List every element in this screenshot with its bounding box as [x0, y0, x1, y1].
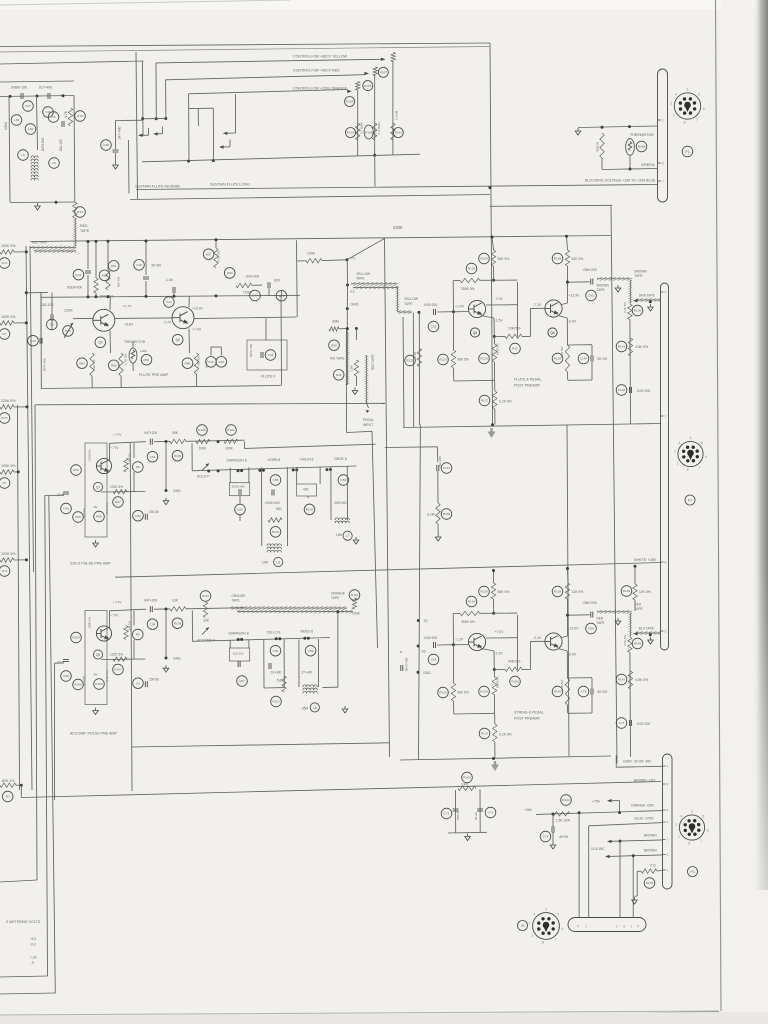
- junction: [346, 327, 349, 330]
- wire ar2: [317, 639, 319, 648]
- inductor L6 coil: [267, 544, 281, 553]
- svg-text:C52: C52: [135, 514, 141, 518]
- capacitor C47: [250, 290, 261, 301]
- svg-text:8: 8: [667, 782, 669, 786]
- wire r80 stub: [95, 241, 97, 278]
- svg-text:4: 4: [675, 93, 677, 97]
- wire emitter v: [493, 318, 495, 337]
- resistor R121 zig: [417, 348, 421, 366]
- wire r6 bot: [567, 372, 569, 380]
- wire base down2: [453, 368, 455, 381]
- capacitor C144 symbol: [591, 356, 593, 362]
- junction: [107, 240, 110, 243]
- capacitor C38: [101, 140, 112, 151]
- wire pot-base: [73, 317, 93, 319]
- resistor R145: [644, 878, 655, 889]
- junction: [578, 811, 581, 814]
- wire r91 col bot: [355, 376, 357, 386]
- capacitor C96b symbol: [269, 663, 271, 669]
- svg-text:R168: R168: [638, 145, 646, 149]
- junction: [566, 281, 569, 284]
- svg-text:C48: C48: [136, 263, 142, 267]
- capacitor C6: [49, 158, 60, 169]
- capacitor C8: [48, 112, 59, 123]
- wire r139 top: [634, 566, 636, 584]
- svg-text:.047+400: .047+400: [118, 126, 122, 140]
- resistor R7 symbol: [0, 321, 14, 325]
- border top line A: [0, 43, 490, 47]
- svg-text:GND.: GND.: [173, 657, 182, 661]
- wire c2 bot: [591, 695, 593, 714]
- svg-text:F11: F11: [651, 864, 657, 868]
- svg-text:TAPE: TAPE: [331, 596, 339, 600]
- wire v2: [319, 467, 321, 484]
- bus 2200 line: [30, 236, 611, 242]
- thermistor: [626, 139, 635, 156]
- node S3: [417, 645, 420, 648]
- wire q5-q6 link: [115, 317, 173, 320]
- resistor R74 symbol: [0, 558, 14, 562]
- resistor 100K symbol: [306, 259, 322, 263]
- wire rg hang: [133, 611, 135, 626]
- svg-text:P2: P2: [685, 150, 689, 154]
- svg-text:8: 8: [542, 941, 544, 945]
- svg-text:.015-200: .015-200: [232, 652, 244, 656]
- resistor R110: [200, 591, 211, 602]
- diapason cap box: [229, 483, 249, 496]
- wire c48 stub: [145, 241, 147, 275]
- junction: [95, 240, 98, 243]
- wire c147 vert: [437, 447, 439, 462]
- mid vertical x567: [567, 425, 569, 757]
- svg-text:6.8K 5%: 6.8K 5%: [636, 678, 649, 682]
- resistor R167 symbol: [391, 53, 395, 62]
- svg-text:1: 1: [678, 835, 680, 839]
- svg-text:+36V: +36V: [524, 808, 533, 812]
- bus node: [258, 469, 261, 472]
- wire r86 bottom: [196, 374, 198, 387]
- svg-text:+7.7V: +7.7V: [123, 305, 133, 309]
- wire red feed horiz: [166, 75, 365, 80]
- svg-text:+.77V: +.77V: [113, 433, 122, 437]
- wire r81 stub: [107, 241, 109, 270]
- ground: [648, 304, 654, 311]
- wire c74 v2: [552, 832, 554, 842]
- node gnd: [346, 307, 349, 310]
- svg-text:56A 5%: 56A 5%: [117, 276, 121, 287]
- emitter2 bottom wire: [568, 379, 592, 381]
- resistor R90: [329, 340, 340, 351]
- svg-text:L7: L7: [346, 534, 350, 538]
- resistor R34: [75, 207, 86, 218]
- resistor R130: [632, 305, 643, 316]
- wire c2 top: [591, 345, 593, 356]
- svg-text:S2: S2: [424, 619, 428, 623]
- pin tick: [663, 869, 666, 871]
- divider vertical x611: [611, 206, 617, 764]
- wire base: [454, 311, 469, 313]
- junction: [566, 567, 569, 570]
- ground: [352, 388, 358, 395]
- wire: [14, 251, 27, 253]
- svg-text:.043+200: .043+200: [636, 389, 650, 393]
- resistor R74: [0, 566, 10, 577]
- resistor R124: [479, 253, 490, 264]
- capacitor C47 symbol: [268, 282, 270, 288]
- svg-text:2.2K 5%: 2.2K 5%: [499, 400, 512, 404]
- svg-text:R112: R112: [272, 700, 279, 704]
- capacitor C62: [428, 321, 439, 332]
- svg-text:SOLO PULSE PRE AMP: SOLO PULSE PRE AMP: [70, 562, 111, 566]
- svg-text:5: 5: [701, 441, 703, 445]
- svg-text:ORANGE: ORANGE: [331, 592, 345, 596]
- wire rail step: [243, 441, 245, 448]
- bus node: [295, 468, 298, 471]
- junction base: [452, 643, 455, 646]
- node: [212, 159, 215, 162]
- wire r139 bot: [634, 600, 636, 611]
- capacitor C42 symbol: [85, 271, 91, 273]
- svg-text:30-6: 30-6: [57, 661, 64, 665]
- emitter2 bottom wire: [568, 712, 592, 714]
- capacitor C42: [73, 269, 84, 280]
- svg-text:.0068/-100: .0068/-100: [10, 86, 27, 90]
- wire cello right v: [283, 648, 285, 688]
- svg-text:2200: 2200: [393, 225, 403, 230]
- wire reed left v: [298, 648, 300, 687]
- flute F box: [247, 340, 287, 370]
- node F1: [346, 258, 349, 261]
- wire horn left v: [261, 476, 263, 546]
- svg-text:C6: C6: [52, 161, 56, 165]
- resistor R93: [333, 370, 344, 381]
- transistor Q6 label: [172, 334, 183, 345]
- svg-text:3: 3: [687, 88, 689, 92]
- resistor R75: [75, 111, 86, 122]
- junction: [145, 240, 148, 243]
- inductor L36: [11, 115, 22, 126]
- svg-text:6800 5%: 6800 5%: [496, 676, 500, 688]
- wire 2nd base v: [529, 308, 531, 336]
- svg-text:50+25: 50+25: [598, 690, 608, 694]
- junction: [26, 405, 29, 408]
- wire d4: [239, 515, 241, 521]
- wire emitter: [481, 316, 494, 319]
- svg-text:BROWN: BROWN: [635, 270, 648, 274]
- resistor R97 symbol: [113, 490, 127, 494]
- svg-text:TAPE: TAPE: [635, 607, 643, 611]
- svg-text:52K 5%: 52K 5%: [572, 257, 584, 261]
- svg-text:R121: R121: [406, 359, 414, 363]
- pin tick: [661, 291, 664, 293]
- notes box outer bottom: [0, 993, 56, 994]
- junction: [629, 168, 632, 171]
- resistor R111: [349, 590, 360, 601]
- capacitor C89 symbol: [591, 612, 593, 618]
- svg-text:R90: R90: [227, 271, 233, 275]
- svg-text:YELLOW: YELLOW: [404, 297, 419, 301]
- ground: [648, 637, 654, 644]
- svg-text:Q4: Q4: [550, 331, 554, 335]
- inductor L5: [18, 150, 29, 161]
- wire c42 stub2: [87, 275, 89, 297]
- capacitor C66: [428, 654, 439, 665]
- capacitor C48 symbol: [261, 352, 263, 358]
- pulse sections left edge: [130, 443, 132, 791]
- capacitor C78: [578, 686, 589, 697]
- bus node: [326, 468, 329, 471]
- resistor R142: [616, 674, 627, 685]
- transistor Q8 box: [85, 611, 107, 705]
- svg-text:R71: R71: [2, 261, 8, 265]
- wire 22m: [252, 284, 262, 286]
- ground: [465, 834, 471, 841]
- svg-text:-6.9V: -6.9V: [568, 653, 577, 657]
- svg-text:R107: R107: [114, 668, 122, 672]
- junction emitter: [493, 668, 496, 671]
- svg-text:+12.9V: +12.9V: [569, 294, 581, 298]
- svg-text:STRING & PEDAL: STRING & PEDAL: [514, 711, 544, 715]
- resistor R101 symbol: [224, 439, 238, 443]
- junction: [619, 840, 622, 843]
- svg-text:1000 5%: 1000 5%: [88, 617, 92, 629]
- wire brown a: [611, 840, 663, 841]
- svg-text:2.2K: 2.2K: [413, 352, 417, 358]
- wire c45 stub: [210, 347, 212, 356]
- svg-text:8: 8: [688, 842, 690, 846]
- svg-text:R7: R7: [3, 481, 7, 485]
- resistor R80: [99, 270, 110, 281]
- wire r91 col top: [355, 329, 357, 341]
- svg-text:220K 5%: 220K 5%: [1, 552, 16, 556]
- svg-text:RED: RED: [80, 224, 88, 228]
- svg-text:ORANGE: ORANGE: [232, 594, 246, 598]
- bus node: [275, 637, 278, 640]
- wire sustain B arm2: [226, 132, 235, 134]
- BROWN tape run: [597, 277, 632, 281]
- node: [418, 311, 421, 314]
- box1 left wire: [9, 96, 10, 202]
- svg-text:10K: 10K: [203, 619, 210, 623]
- svg-text:4: 4: [665, 290, 667, 294]
- orange tape run 2: [237, 610, 353, 614]
- resistor R123 symbol: [460, 278, 480, 282]
- wire right vert: [629, 653, 632, 758]
- wire q2 emitter v: [566, 318, 568, 345]
- resistor R150 symbol: [436, 503, 440, 524]
- resistor R127 symbol: [493, 391, 497, 409]
- resistor R124 symbol: [491, 250, 495, 266]
- svg-text:R93: R93: [336, 373, 342, 377]
- capacitor C45: [206, 357, 217, 368]
- capacitor C89: [586, 623, 597, 634]
- box1 top line: [0, 61, 144, 64]
- capacitor C87: [237, 676, 248, 687]
- wire sustain B arm1 v: [229, 140, 231, 147]
- inductor L7 label: [343, 531, 352, 540]
- capacitor C37: [23, 101, 34, 112]
- svg-text:R135: R135: [480, 590, 488, 594]
- junction: [566, 614, 569, 617]
- svg-text:.0022+400: .0022+400: [249, 343, 253, 358]
- svg-text:POST PREAMP.: POST PREAMP.: [514, 384, 540, 388]
- plug label P3: [688, 867, 698, 877]
- svg-text:RED: RED: [635, 603, 642, 607]
- wire r127 to base: [522, 336, 530, 338]
- svg-text:C62: C62: [431, 325, 437, 329]
- svg-text:5: 5: [702, 814, 704, 818]
- svg-text:C89: C89: [588, 627, 594, 631]
- resistor R106: [94, 679, 105, 690]
- arrowhead red: [364, 72, 369, 75]
- resistor R83 symbol: [119, 353, 123, 376]
- svg-text:C72: C72: [444, 812, 450, 816]
- svg-text:4.7K: 4.7K: [64, 110, 68, 118]
- wire after cap: [154, 440, 170, 442]
- wire c2 join: [567, 677, 592, 679]
- svg-text:R162: R162: [365, 130, 373, 134]
- pin tick: [663, 854, 666, 856]
- svg-text:4: 4: [678, 441, 680, 445]
- svg-text:C73: C73: [488, 811, 494, 815]
- capacitor C62 symbol: [434, 309, 436, 315]
- svg-text:.043+200: .043+200: [423, 303, 437, 307]
- resistor R94: [71, 465, 82, 476]
- svg-text:TAPE: TAPE: [356, 277, 365, 281]
- inductor L8 coil: [303, 685, 317, 694]
- inductor L7 coil: [335, 518, 349, 523]
- svg-text:.00334-600: .00334-600: [66, 286, 82, 290]
- wire blue: [589, 823, 663, 826]
- bus node: [307, 637, 310, 640]
- svg-text:C37: C37: [25, 104, 31, 108]
- resistor 4.7K: [68, 108, 72, 126]
- junction: [632, 854, 635, 857]
- resistor R138 symbol: [565, 583, 569, 599]
- wire base down2: [453, 701, 455, 714]
- resistor R87 symbol: [214, 248, 218, 268]
- capacitor C5: [133, 678, 144, 689]
- junction: [25, 558, 28, 561]
- wire d1: [229, 468, 231, 483]
- svg-text:+75V: +75V: [592, 800, 601, 804]
- wire o1: [330, 467, 332, 476]
- wire sustain B arm1: [223, 146, 231, 148]
- capacitor C49: [61, 503, 72, 514]
- capacitor C46: [216, 357, 227, 368]
- wire brown b down: [632, 856, 634, 918]
- capacitor .0047-600 symbol: [401, 665, 403, 671]
- svg-text:1000: 1000: [461, 783, 468, 787]
- notes box inner right edge: [45, 495, 48, 976]
- wire sustain A arm2 v: [162, 127, 164, 134]
- wire orange feed vert: [188, 94, 190, 161]
- bus node: [237, 469, 240, 472]
- svg-text:C96: C96: [273, 649, 279, 653]
- svg-text:33M: 33M: [332, 320, 339, 324]
- capacitor C37 symbol: [21, 93, 23, 99]
- resistor R126 symbol: [565, 345, 569, 372]
- svg-text:1: 1: [673, 114, 675, 118]
- capacitor C148 symbol: [630, 387, 632, 393]
- wire q2 emitter: [558, 316, 567, 319]
- svg-text:56K 5%: 56K 5%: [498, 590, 510, 594]
- bus node: [303, 637, 306, 640]
- bottom page edge line 2: [115, 1012, 719, 1024]
- junction: [87, 240, 90, 243]
- resistor R164: [346, 128, 356, 138]
- wire sustain B h1: [189, 107, 213, 109]
- svg-text:.0033+400: .0033+400: [231, 485, 245, 489]
- svg-text:R106: R106: [95, 682, 103, 686]
- svg-text:REED 8: REED 8: [301, 630, 313, 634]
- svg-text:3: 3: [667, 853, 669, 857]
- svg-text:122K 5%: 122K 5%: [110, 485, 123, 489]
- svg-text:5.6A 5%: 5.6A 5%: [217, 250, 221, 262]
- capacitor C44: [164, 297, 175, 308]
- resistor R134 symbol: [460, 611, 480, 615]
- wire c44 stub: [173, 293, 175, 296]
- svg-text:.27+400: .27+400: [301, 671, 313, 675]
- capacitor C73: [485, 807, 496, 818]
- capacitor C51 symbol: [150, 439, 152, 445]
- red tape vertical run: [73, 218, 77, 246]
- svg-text:100K: 100K: [225, 446, 234, 450]
- control down feed: [374, 155, 376, 186]
- wire gnd-tape: [346, 309, 348, 333]
- svg-text:BROWN -3.8V: BROWN -3.8V: [634, 779, 656, 783]
- pin tick: [658, 119, 662, 121]
- svg-text:-1.5V: -1.5V: [495, 319, 504, 323]
- junction: [492, 757, 495, 760]
- capacitor C96: [270, 645, 281, 656]
- wire c4 down: [51, 320, 53, 330]
- svg-text:2.2K 5%: 2.2K 5%: [623, 635, 627, 646]
- switch SOLO F: [202, 464, 209, 471]
- resistor R110 symbol: [203, 602, 207, 618]
- wire emitter-res: [494, 668, 505, 670]
- ground arrow lower: [491, 761, 499, 771]
- junction: [107, 295, 110, 298]
- control vert yellow: [392, 62, 394, 156]
- svg-text:.047+200: .047+200: [143, 431, 157, 435]
- tape2 arrow: [633, 632, 638, 635]
- wire to sw: [186, 608, 245, 609]
- wire therm top: [132, 342, 134, 348]
- svg-text:YELLOW: YELLOW: [356, 272, 371, 276]
- svg-text:L38: L38: [28, 127, 33, 131]
- wire yellow feed horiz: [156, 59, 381, 63]
- svg-text:56K 5%: 56K 5%: [498, 257, 510, 261]
- post inner bottom: [454, 712, 495, 715]
- svg-text:R165: R165: [364, 84, 372, 88]
- junction: [618, 811, 621, 814]
- resistor R112 symbol: [282, 676, 286, 692]
- ground: [615, 285, 621, 292]
- wire q5 collector: [109, 297, 111, 310]
- resistor R86: [182, 358, 193, 369]
- svg-text:100K 5%: 100K 5%: [1, 464, 16, 468]
- box2 bottom line: [130, 195, 490, 200]
- box2 left edge: [136, 52, 138, 200]
- resistor R125 symbol: [451, 350, 455, 368]
- red tape vertical run pedal: [365, 355, 369, 403]
- tube socket J9: [529, 907, 564, 944]
- svg-text:+1.4V: +1.4V: [455, 305, 465, 309]
- svg-text:.056+200: .056+200: [583, 268, 597, 272]
- svg-text:300K 5%: 300K 5%: [461, 620, 475, 624]
- svg-text:P3: P3: [690, 870, 694, 874]
